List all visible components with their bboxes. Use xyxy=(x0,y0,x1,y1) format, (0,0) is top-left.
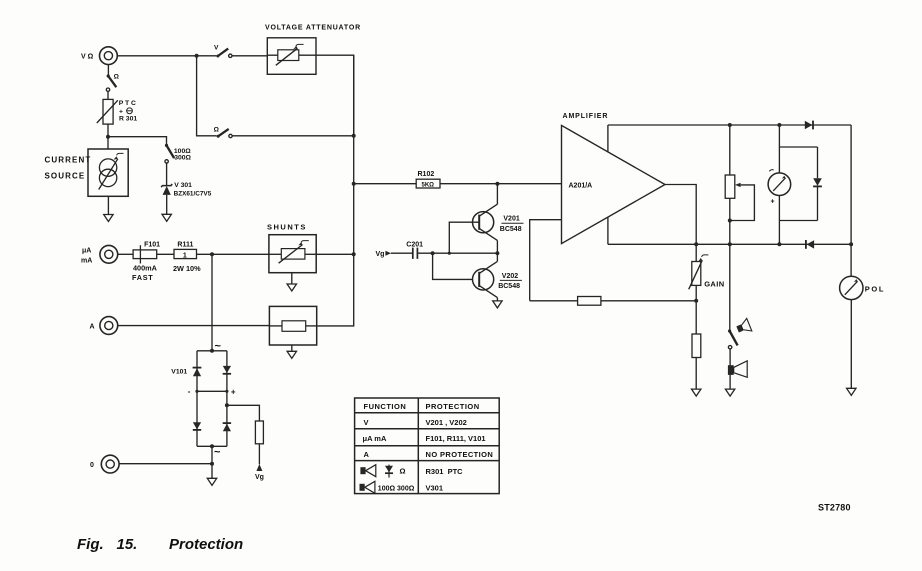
bottom rail xyxy=(608,243,851,245)
table speaker icon 2 xyxy=(360,481,375,493)
transistor V201 xyxy=(473,204,524,240)
node feedback/gain xyxy=(694,299,698,303)
table speaker icon 1 xyxy=(360,465,375,477)
svg-text:Fig.: Fig. xyxy=(77,536,104,553)
node base row V201 branch xyxy=(448,252,451,255)
wire bridge bottom to 0-row xyxy=(211,446,213,463)
wire V201 emitter to junction xyxy=(496,240,498,253)
svg-text:VOLTAGE ATTENUATOR: VOLTAGE ATTENUATOR xyxy=(265,25,361,32)
svg-text:~: ~ xyxy=(214,447,221,459)
ground below POL xyxy=(847,388,856,395)
terminal A xyxy=(90,317,118,335)
current source box xyxy=(45,149,129,196)
node base row / V202 branch xyxy=(431,251,435,255)
drawing number ST2780 xyxy=(818,503,851,513)
meter sub-box top edge xyxy=(779,146,817,148)
svg-text:+: + xyxy=(119,108,123,115)
svg-text:R111: R111 xyxy=(177,242,193,249)
resistor R102 5kOhm xyxy=(416,171,440,188)
svg-text:FUNCTION: FUNCTION xyxy=(364,402,407,411)
svg-text:BC548: BC548 xyxy=(498,283,520,290)
diode lower-left (pointing down) xyxy=(193,422,201,430)
diode parallel to meter (pointing down) xyxy=(813,147,822,221)
wire V-Ohm terminal to switch V xyxy=(117,55,216,57)
wire terminal to fuse xyxy=(118,253,133,255)
table row uA mA xyxy=(363,434,486,443)
svg-text:F101: F101 xyxy=(144,242,160,249)
wire shunts1 out to bus xyxy=(316,253,354,255)
svg-text:2W 10%: 2W 10% xyxy=(173,264,201,273)
svg-text:F101, R111, V101: F101, R111, V101 xyxy=(426,434,486,443)
svg-text:R102: R102 xyxy=(418,171,435,178)
svg-text:CURRENT: CURRENT xyxy=(45,156,92,165)
wire buzzer branch xyxy=(729,244,731,330)
shunts adjustable resistor xyxy=(269,241,316,264)
svg-text:+: + xyxy=(231,387,236,396)
table header row xyxy=(364,402,480,411)
wire shunt2 to ground xyxy=(291,345,293,351)
svg-text:V101: V101 xyxy=(171,369,187,376)
svg-text:Protection: Protection xyxy=(169,536,243,553)
node pot wiper return xyxy=(728,219,732,223)
potentiometer (meter range) xyxy=(725,175,754,221)
PTC resistor R301 xyxy=(97,99,138,124)
wire meter branch top xyxy=(778,125,780,173)
svg-text:V 301: V 301 xyxy=(174,182,192,189)
svg-text:V201 , V202: V201 , V202 xyxy=(426,418,467,427)
wire gain pot to feedback node xyxy=(695,285,697,334)
svg-text:-: - xyxy=(188,387,191,396)
terminal uA/mA xyxy=(81,245,118,264)
bridge left column wire xyxy=(196,351,198,447)
shunt box 2 xyxy=(269,306,316,345)
diode top rail (pointing right) xyxy=(805,121,813,130)
ground below V202 xyxy=(493,301,502,308)
wire pot branch lower xyxy=(729,198,731,244)
svg-text:P T C: P T C xyxy=(119,100,136,107)
svg-text:FAST: FAST xyxy=(132,273,153,282)
svg-text:300Ω: 300Ω xyxy=(174,154,191,161)
svg-text:Vg: Vg xyxy=(376,251,385,258)
node below PTC xyxy=(106,135,110,139)
wire feedback to amp inverting input xyxy=(530,220,562,301)
node V201 collector tap xyxy=(495,182,499,186)
svg-text:V202: V202 xyxy=(502,273,518,280)
wire fuse to R111 xyxy=(157,253,174,255)
svg-text:AMPLIFIER: AMPLIFIER xyxy=(563,113,609,120)
node bridge top xyxy=(210,341,222,353)
wire ohm switch to bus xyxy=(232,135,354,137)
wire POL to ground xyxy=(850,300,852,388)
figure caption xyxy=(77,536,243,553)
node pot bottom rail xyxy=(728,242,732,246)
node shunts1 bus xyxy=(352,252,356,256)
svg-text:R 301: R 301 xyxy=(119,116,137,123)
svg-text:SOURCE: SOURCE xyxy=(45,171,86,180)
node uA row to bridge xyxy=(210,252,214,256)
resistor below gain xyxy=(692,334,701,358)
svg-text:C201: C201 xyxy=(406,241,423,248)
svg-text:ST2780: ST2780 xyxy=(818,503,851,513)
wire V201 base xyxy=(449,222,472,253)
svg-text:Ω: Ω xyxy=(214,127,220,134)
svg-text:Vg: Vg xyxy=(255,474,264,481)
meter M xyxy=(768,170,791,206)
wire V202 base xyxy=(433,253,473,279)
ground below buzzer xyxy=(725,389,734,396)
wire PTC to current source node xyxy=(107,124,109,149)
wire V201 collector to R102 row xyxy=(496,184,498,205)
terminal V-Ohm xyxy=(81,47,117,65)
svg-text:+: + xyxy=(771,199,775,206)
wire current source to ground xyxy=(107,196,109,214)
svg-text:A201/A: A201/A xyxy=(569,183,593,190)
wire V202 emitter to ground xyxy=(496,298,498,301)
node at x196 top row xyxy=(195,54,199,58)
wire R102 to amplifier input xyxy=(440,183,562,185)
wire node to ground xyxy=(211,464,213,478)
table omega symbol xyxy=(400,467,406,476)
svg-text:SHUNTS: SHUNTS xyxy=(267,222,307,231)
table row V xyxy=(364,418,467,427)
wire zener to ground xyxy=(166,195,168,214)
node right rail bottom xyxy=(849,242,853,246)
wire resistor to Vg arrow xyxy=(258,444,260,465)
small speaker icon at switch xyxy=(735,318,752,335)
node 0 row xyxy=(210,462,214,466)
wire top rail tap from amp xyxy=(607,125,609,152)
wire shunts1 to ground xyxy=(291,273,293,284)
table diode icon xyxy=(385,465,393,478)
diode V101 upper-left (pointing up) xyxy=(171,368,201,377)
wire V202 collector to junction xyxy=(496,253,498,261)
node bridge plus output xyxy=(225,403,229,407)
voltage attenuator box xyxy=(265,25,361,75)
svg-text:400mA: 400mA xyxy=(133,263,158,272)
bridge top bar xyxy=(197,350,227,352)
wire amp output to gain branch xyxy=(665,185,696,262)
ground below shunts1 xyxy=(287,284,296,291)
bridge bottom bar xyxy=(197,444,227,458)
fuse F101 xyxy=(132,242,160,283)
wire Vg arrow to C201 xyxy=(391,252,413,254)
svg-text:A: A xyxy=(364,450,370,459)
wire pot branch upper xyxy=(729,125,731,175)
node R102 row at bus xyxy=(352,182,356,186)
capacitor C201 xyxy=(406,241,423,259)
node meter branch top rail xyxy=(777,123,781,127)
wire bus to R102 xyxy=(354,183,417,185)
svg-text:BC548: BC548 xyxy=(500,226,522,233)
wire R111 to shunts box xyxy=(197,253,269,255)
potentiometer GAIN xyxy=(689,255,725,289)
svg-text:μA: μA xyxy=(82,248,91,255)
wire shunt2 out to bus corner xyxy=(317,254,354,326)
svg-text:R301 PTC: R301 PTC xyxy=(426,467,464,476)
shunt2 resistor xyxy=(269,321,316,332)
switch buzzer xyxy=(728,329,738,349)
svg-text:A: A xyxy=(90,324,95,331)
wire bridge column xyxy=(211,254,213,350)
svg-text:V201: V201 xyxy=(503,216,519,223)
wire switch to zener V301 xyxy=(166,163,168,185)
diode lower-right (pointing up) xyxy=(223,423,231,431)
diode bottom rail (pointing left) xyxy=(806,240,814,249)
wire node to 100/300 ohm switch xyxy=(108,137,167,145)
svg-text:15.: 15. xyxy=(117,536,138,553)
svg-text:GAIN: GAIN xyxy=(704,279,724,288)
node emitter/collector junction xyxy=(495,251,499,255)
wire meter to bottom rail xyxy=(778,196,780,245)
shunts box 1 xyxy=(267,222,316,272)
wire bottom rail tap from amp xyxy=(607,217,609,244)
ground below shunt2 xyxy=(287,351,296,358)
wire feedback row to resistor xyxy=(530,300,578,302)
vertical bus x=353.7 top section xyxy=(353,55,355,254)
diode upper-right (pointing down) xyxy=(223,366,231,374)
svg-text:5KΩ: 5KΩ xyxy=(422,182,435,188)
svg-text:BZX61/C7V5: BZX61/C7V5 xyxy=(174,190,212,197)
svg-text:V: V xyxy=(214,44,219,51)
svg-text:Ω: Ω xyxy=(400,467,406,476)
svg-text:V301: V301 xyxy=(426,483,444,492)
table row R301 PTC xyxy=(426,467,464,476)
svg-text:PROTECTION: PROTECTION xyxy=(426,402,480,411)
svg-text:V: V xyxy=(364,418,369,427)
svg-text:Ω: Ω xyxy=(114,74,120,81)
resistor R111 xyxy=(173,242,201,273)
switch 100ohm/300ohm xyxy=(165,144,192,163)
svg-text:mA: mA xyxy=(81,257,92,264)
svg-text:0: 0 xyxy=(90,462,94,469)
meter POL xyxy=(840,276,885,299)
wire switch to speaker xyxy=(729,349,731,389)
meter sub-box bottom edge xyxy=(779,220,817,222)
switch V xyxy=(214,44,232,57)
right vertical rail xyxy=(850,125,852,276)
top rail xyxy=(608,124,851,126)
svg-text:POL: POL xyxy=(865,284,885,293)
feedback resistor xyxy=(578,297,601,306)
wire A row xyxy=(118,325,270,327)
op-amp A201/A xyxy=(562,113,666,244)
svg-text:1: 1 xyxy=(183,252,187,259)
ground below gain resistor xyxy=(692,389,701,396)
table 100/300 ohm text xyxy=(378,485,415,492)
wire 0 row xyxy=(119,463,212,465)
Vg arrow (bridge) xyxy=(255,464,264,481)
node meter bottom rail xyxy=(777,242,781,246)
node output on bottom rail xyxy=(694,242,698,246)
wire resistor to ground xyxy=(695,358,697,389)
svg-text:μA mA: μA mA xyxy=(363,434,387,443)
switch Ohm (to bus) xyxy=(214,127,233,138)
svg-text:NO PROTECTION: NO PROTECTION xyxy=(426,450,494,459)
node pot branch top rail xyxy=(728,123,732,127)
table row V301 xyxy=(426,483,444,492)
resistor to Vg xyxy=(255,421,263,444)
ground below V301 xyxy=(162,214,171,221)
ground below 0 row xyxy=(207,478,216,485)
table row A xyxy=(364,450,494,459)
ground below current source xyxy=(104,215,113,222)
loudspeaker (buzzer) xyxy=(728,361,747,378)
wire switch V to attenuator xyxy=(232,55,267,57)
bridge middle bar xyxy=(188,387,236,397)
Vg input arrow xyxy=(376,251,392,258)
wire plus output to Vg resistor xyxy=(227,405,260,421)
transistor V202 xyxy=(473,261,522,297)
switch Ohm (ohm range, on terminal column) xyxy=(106,65,119,100)
wire C201 to transistor bases row xyxy=(417,252,497,254)
node ohm row bus xyxy=(352,134,356,138)
wire top node down to ohm switch row xyxy=(197,56,217,136)
zener diode V301 xyxy=(161,182,211,198)
svg-text:100Ω 300Ω: 100Ω 300Ω xyxy=(378,485,415,492)
attenuator adjustable resistor xyxy=(267,44,316,65)
current source symbol (two circles + arrow) xyxy=(99,153,124,189)
terminal 0 xyxy=(90,455,119,473)
wire feedback resistor to gain node xyxy=(601,300,696,302)
wire attenuator out to right bus xyxy=(316,55,354,136)
bridge right column wire xyxy=(226,351,228,447)
protection table frame xyxy=(355,398,500,494)
svg-text:V Ω: V Ω xyxy=(81,54,94,61)
